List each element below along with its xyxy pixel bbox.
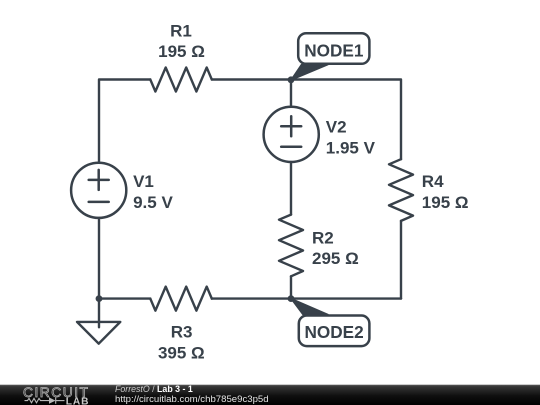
- wire NODE1 stub: [290, 80, 292, 107]
- svg-text:ForrestO / Lab 3 - 1: ForrestO / Lab 3 - 1: [115, 384, 193, 394]
- wire bottom-left segment: [99, 297, 150, 299]
- voltage source V2: [264, 107, 319, 162]
- logo resistor-diode glyph: [25, 397, 65, 403]
- node NODE1 flag wedge: [291, 65, 328, 81]
- svg-text:9.5 V: 9.5 V: [133, 193, 173, 212]
- resistor R4: [389, 159, 413, 221]
- svg-text:R3: R3: [171, 323, 193, 342]
- resistor R2: [279, 215, 303, 277]
- wire right-lower segment: [400, 221, 402, 299]
- svg-text:195 Ω: 195 Ω: [158, 42, 205, 61]
- wire left-lower segment: [98, 218, 100, 299]
- voltage source V1: [71, 163, 126, 218]
- node NODE1 junction dot: [288, 76, 295, 83]
- wire bottom-middle segment: [212, 297, 291, 299]
- svg-text:1.95 V: 1.95 V: [326, 138, 376, 157]
- svg-text:LAB: LAB: [66, 396, 90, 405]
- svg-text:295 Ω: 295 Ω: [312, 249, 359, 268]
- svg-text:http://circuitlab.com/chb785e9: http://circuitlab.com/chb785e9c3p5d: [115, 394, 269, 405]
- wire top-left segment: [99, 80, 150, 163]
- wire R2 to NODE2: [290, 276, 292, 298]
- svg-text:195 Ω: 195 Ω: [422, 193, 469, 212]
- resistor R3: [150, 287, 212, 311]
- svg-text:NODE1: NODE1: [304, 41, 364, 61]
- svg-text:395 Ω: 395 Ω: [158, 343, 205, 362]
- wire bottom-right segment: [291, 297, 401, 299]
- node NODE2 flag wedge: [291, 299, 328, 315]
- svg-text:R1: R1: [170, 21, 192, 40]
- wire top-middle segment: [212, 78, 291, 80]
- ground: [77, 299, 120, 344]
- node NODE2 junction dot: [288, 295, 295, 302]
- node NODE2 flag box: [299, 316, 370, 347]
- wire top-right segment: [291, 80, 401, 160]
- wire V2 to R2: [290, 162, 292, 215]
- node ground junction dot: [96, 295, 103, 302]
- svg-text:V1: V1: [133, 172, 154, 191]
- svg-text:NODE2: NODE2: [304, 322, 363, 342]
- node NODE1 flag box: [298, 33, 369, 64]
- svg-text:R4: R4: [422, 172, 444, 191]
- resistor R1: [150, 68, 212, 92]
- svg-text:V2: V2: [326, 118, 347, 137]
- svg-text:R2: R2: [312, 228, 334, 247]
